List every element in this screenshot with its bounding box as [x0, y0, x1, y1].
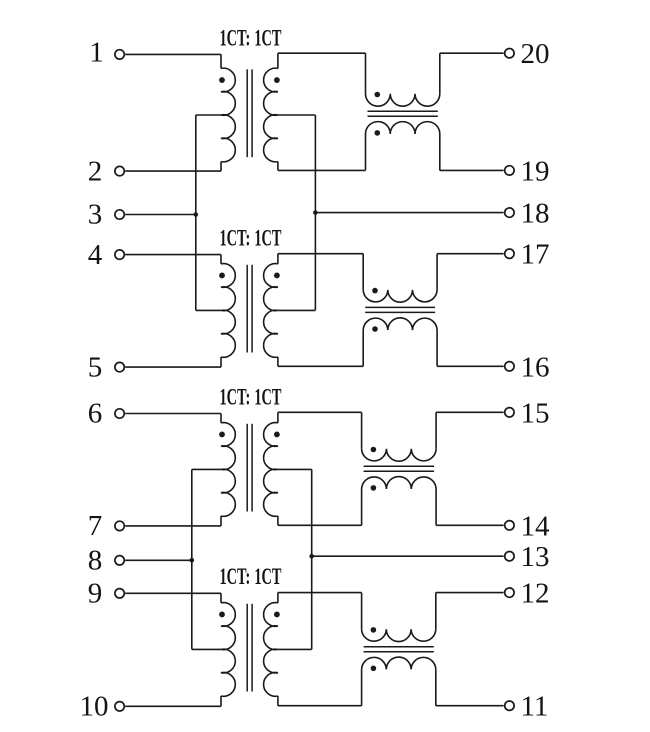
svg-text:9: 9: [88, 578, 103, 610]
choke choke L2 top winding: [363, 290, 437, 302]
wire transformer T3 primary top lead: [220, 414, 222, 423]
wire pin 5 to T2 primary bottom: [125, 366, 221, 368]
choke L1 bottom winding polarity dot: [375, 130, 381, 136]
wire transformer T1 primary top lead: [220, 54, 222, 68]
transformer T3 primary winding (left, center-tapped): [221, 423, 235, 517]
svg-text:3: 3: [88, 199, 103, 231]
wire L2 to pin 16: [437, 365, 504, 367]
wire T2 secondary top to L2: [278, 253, 363, 255]
pin 20 terminal: [505, 49, 514, 58]
choke choke L3 top winding: [362, 449, 437, 461]
transformer T1 core line 2: [251, 69, 253, 157]
svg-text:5: 5: [88, 351, 103, 383]
choke L4 bottom winding polarity dot: [371, 666, 377, 672]
choke L3 bottom winding polarity dot: [371, 485, 377, 491]
choke L2 core line 1: [365, 306, 435, 308]
junction pin 3 node: [194, 212, 199, 217]
wire T3 secondary bottom to L3: [278, 524, 362, 526]
svg-text:12: 12: [521, 578, 550, 610]
pin 6 terminal: [115, 409, 124, 418]
svg-text:20: 20: [521, 38, 550, 70]
wire transformer T1 secondary top lead: [277, 53, 279, 68]
wire transformer T1 primary center tap: [196, 114, 221, 116]
svg-text:16: 16: [521, 351, 550, 383]
pin 4 terminal: [115, 250, 124, 259]
svg-text:13: 13: [521, 541, 550, 573]
pin 10 terminal: [115, 702, 124, 711]
svg-text:19: 19: [521, 155, 550, 187]
transformer T2 core line 1: [246, 265, 248, 353]
pin 19 terminal: [505, 166, 514, 175]
svg-text:1CT: 1CT: 1CT: 1CT: [220, 564, 282, 589]
wire transformer T1 secondary center tap: [278, 114, 316, 116]
choke L3 core line 2: [364, 470, 435, 472]
wire L1 to pin 19: [440, 169, 504, 171]
wire pin 9 to T4 primary top: [125, 592, 221, 594]
wire transformer T4 secondary center tap: [278, 648, 312, 650]
wire L1 to pin 20: [440, 52, 504, 54]
wire pin 3 to center-tap node: [125, 214, 196, 216]
pin 18 terminal: [505, 208, 514, 217]
wire left center-tap link T3-T4: [191, 469, 193, 649]
choke choke L1 top winding: [366, 94, 440, 106]
pin 7 terminal: [115, 521, 124, 530]
choke L1 top winding polarity dot: [375, 92, 381, 98]
wire pin 10 to T4 primary bottom: [125, 705, 221, 707]
wire transformer T2 primary bottom lead: [220, 357, 222, 367]
transformer T4 primary winding (left, center-tapped): [221, 603, 235, 697]
wire transformer T3 primary center tap: [192, 468, 221, 470]
transformer T2 primary polarity dot: [219, 273, 225, 279]
svg-text:1CT: 1CT: 1CT: 1CT: [220, 225, 282, 250]
transformer T3 primary polarity dot: [219, 432, 225, 438]
wire choke L3 top winding left lead: [361, 412, 363, 449]
pin 8 terminal: [115, 556, 124, 565]
svg-text:1: 1: [89, 36, 104, 68]
wire choke L4 top winding left lead: [361, 593, 363, 630]
svg-text:17: 17: [521, 239, 550, 271]
transformer T2 primary winding (left, center-tapped): [221, 264, 235, 358]
wire pin 1 to T1 primary top: [125, 53, 221, 55]
choke choke L4 bottom winding: [362, 657, 436, 669]
pin 5 terminal: [115, 362, 124, 371]
pin 2 terminal: [115, 166, 124, 175]
wire choke L1 bottom winding left lead: [365, 134, 367, 170]
wire T3 secondary top to L3: [278, 411, 362, 413]
wire transformer T3 secondary center tap: [278, 468, 312, 470]
transformer T3 secondary winding (right, center-tapped): [264, 423, 278, 517]
pin 11 terminal: [505, 701, 514, 710]
wire transformer T3 secondary bottom lead: [277, 516, 279, 525]
wire transformer T1 primary bottom lead: [220, 162, 222, 172]
wire transformer T4 primary bottom lead: [220, 696, 222, 706]
wire choke L2 top winding left lead: [362, 254, 364, 290]
transformer T1 secondary winding (right, center-tapped): [264, 68, 278, 162]
pin 15 terminal: [505, 408, 514, 417]
svg-text:7: 7: [88, 510, 103, 542]
wire transformer T2 secondary center tap: [278, 309, 316, 311]
pin 3 terminal: [115, 210, 124, 219]
wire transformer T3 primary bottom lead: [220, 516, 222, 526]
junction pin 8 node: [190, 558, 195, 563]
wire transformer T2 primary top lead: [220, 255, 222, 264]
junction pin 13 node: [309, 554, 314, 559]
transformer T4 core line 1: [246, 604, 248, 692]
transformer T4 secondary winding (right, center-tapped): [264, 603, 278, 697]
wire T2 secondary bottom to L2: [278, 365, 363, 367]
pin 14 terminal: [505, 521, 514, 530]
wire transformer T4 secondary bottom lead: [277, 696, 279, 706]
wire choke L4 bottom winding right lead: [435, 669, 437, 705]
transformer T1 primary winding (left, center-tapped): [221, 68, 235, 162]
transformer T4 secondary polarity dot: [274, 612, 280, 618]
wire pin 2 to T1 primary bottom: [125, 170, 221, 172]
junction pin 18 node: [313, 210, 318, 215]
transformer T2 secondary polarity dot: [274, 273, 280, 279]
pin 9 terminal: [115, 589, 124, 598]
pin 13 terminal: [505, 552, 514, 561]
wire transformer T2 primary center tap: [196, 309, 221, 311]
choke L2 core line 2: [365, 311, 435, 313]
wire center-tap node to pin 13: [312, 555, 504, 557]
wire right center-tap link T1-T2: [314, 115, 316, 310]
wire L3 to pin 14: [436, 524, 504, 526]
transformer T3 core line 2: [251, 424, 253, 512]
wire choke L1 top winding left lead: [365, 53, 367, 94]
svg-text:1CT: 1CT: 1CT: 1CT: [220, 25, 282, 50]
wire pin 4 to T2 primary top: [125, 254, 221, 256]
pin 16 terminal: [505, 362, 514, 371]
choke L3 core line 1: [364, 465, 435, 467]
choke L2 bottom winding polarity dot: [372, 326, 378, 332]
choke choke L2 bottom winding: [363, 318, 437, 330]
choke L3 top winding polarity dot: [371, 447, 377, 453]
wire L4 to pin 11: [436, 705, 504, 707]
svg-text:18: 18: [521, 198, 550, 230]
svg-text:14: 14: [521, 510, 551, 542]
transformer T3 core line 1: [246, 424, 248, 512]
choke choke L1 bottom winding: [366, 122, 440, 134]
choke L1 core line 1: [368, 110, 438, 112]
choke L4 core line 2: [364, 651, 434, 653]
svg-text:2: 2: [88, 155, 103, 187]
wire transformer T2 secondary top lead: [277, 254, 279, 264]
wire pin 6 to T3 primary top: [125, 413, 221, 415]
wire transformer T2 secondary bottom lead: [277, 357, 279, 366]
transformer T4 core line 2: [251, 604, 253, 692]
wire T4 secondary top to L4: [278, 592, 362, 594]
wire pin 7 to T3 primary bottom: [125, 525, 221, 527]
svg-text:11: 11: [521, 691, 549, 723]
pin 12 terminal: [505, 588, 514, 597]
wire choke L3 bottom winding left lead: [361, 489, 363, 525]
transformer T1 core line 1: [246, 69, 248, 157]
wire choke L2 top winding right lead: [436, 254, 438, 290]
wire T1 secondary top to L1: [278, 52, 366, 54]
svg-text:8: 8: [88, 545, 103, 577]
choke L2 top winding polarity dot: [372, 288, 378, 294]
wire choke L2 bottom winding right lead: [436, 330, 438, 366]
transformer T2 secondary winding (right, center-tapped): [264, 264, 278, 358]
choke L4 top winding polarity dot: [371, 627, 377, 633]
wire L2 to pin 17: [437, 253, 504, 255]
transformer T4 primary polarity dot: [219, 612, 225, 618]
transformer T1 primary polarity dot: [219, 77, 225, 83]
choke L4 core line 1: [364, 646, 434, 648]
wire transformer T4 primary center tap: [192, 648, 221, 650]
choke choke L3 bottom winding: [362, 477, 437, 489]
wire L4 to pin 12: [436, 592, 504, 594]
wire T1 secondary bottom to L1: [278, 169, 366, 171]
choke L1 core line 2: [368, 115, 438, 117]
wire transformer T3 secondary top lead: [277, 412, 279, 423]
choke choke L4 top winding: [362, 629, 436, 641]
wire choke L4 bottom winding left lead: [361, 669, 363, 705]
svg-text:10: 10: [80, 691, 109, 723]
wire left center-tap link T1-T2: [195, 115, 197, 310]
wire center-tap node to pin 18: [315, 212, 503, 214]
transformer T1 secondary polarity dot: [274, 77, 280, 83]
svg-text:4: 4: [88, 239, 103, 271]
wire pin 8 to center-tap node: [125, 559, 192, 561]
svg-text:15: 15: [521, 397, 550, 429]
wire L3 to pin 15: [436, 411, 504, 413]
svg-text:6: 6: [88, 398, 103, 430]
wire choke L1 bottom winding right lead: [439, 134, 441, 170]
wire transformer T1 secondary bottom lead: [277, 162, 279, 171]
transformer T3 secondary polarity dot: [274, 432, 280, 438]
wire choke L2 bottom winding left lead: [362, 330, 364, 366]
wire choke L4 top winding right lead: [435, 593, 437, 630]
wire choke L3 top winding right lead: [435, 412, 437, 449]
transformer T2 core line 2: [251, 265, 253, 353]
wire choke L1 top winding right lead: [439, 53, 441, 94]
pin 1 terminal: [115, 50, 124, 59]
pin 17 terminal: [505, 249, 514, 258]
wire T4 secondary bottom to L4: [278, 705, 362, 707]
wire transformer T4 primary top lead: [220, 593, 222, 603]
wire choke L3 bottom winding right lead: [435, 489, 437, 525]
svg-text:1CT: 1CT: 1CT: 1CT: [220, 385, 282, 410]
wire transformer T4 secondary top lead: [277, 593, 279, 603]
wire right center-tap link T3-T4: [311, 469, 313, 649]
